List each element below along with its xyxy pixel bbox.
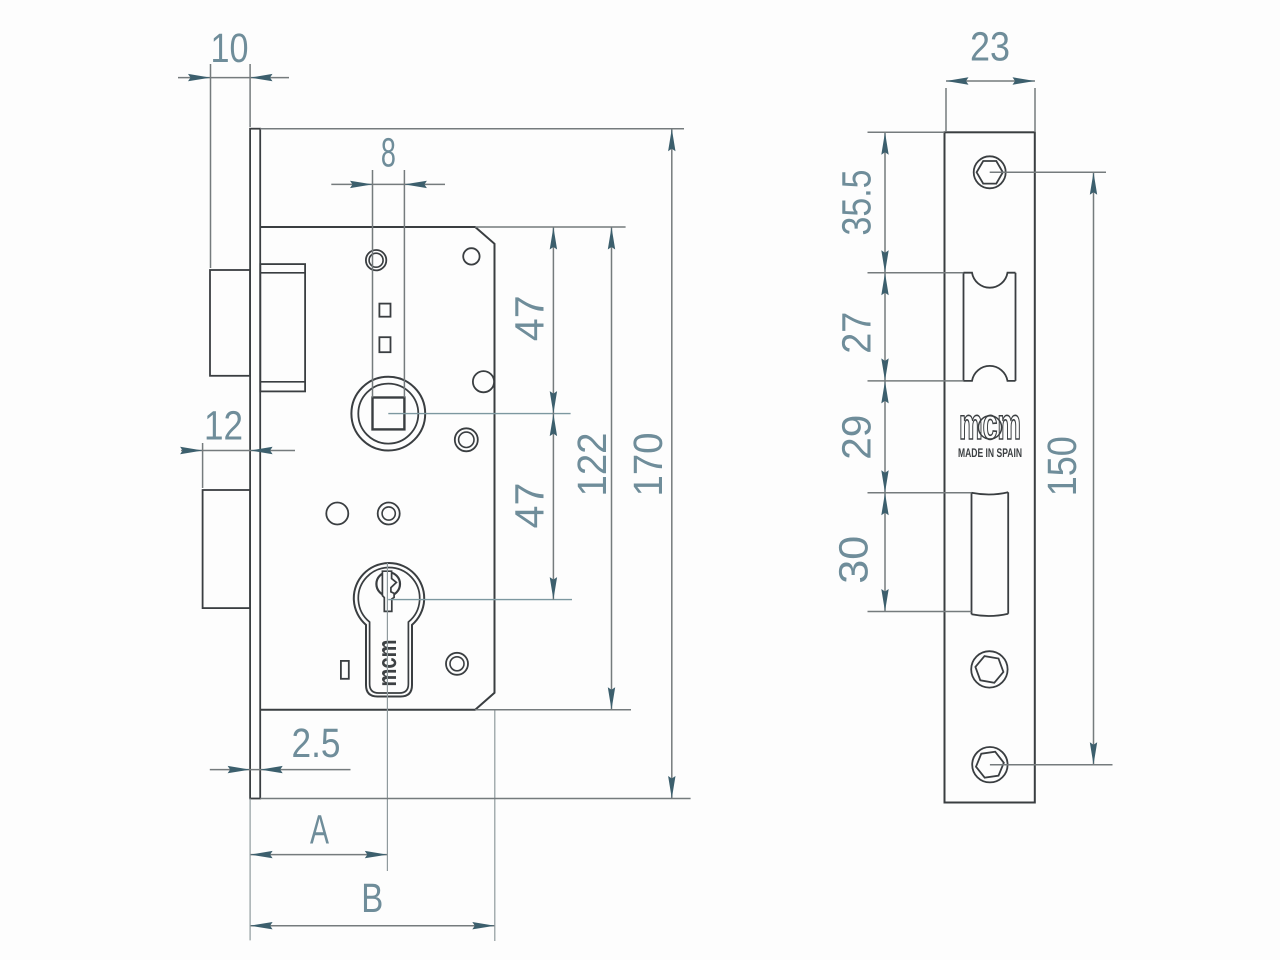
euro cylinder inner contour [358, 568, 419, 693]
dim 47 top dimension line [552, 227, 554, 414]
dim 27 dimension line [884, 273, 886, 381]
follower inner circle [358, 384, 418, 444]
shared left extension line below faceplate (for 2.5 / A / B) [249, 799, 251, 941]
dim 122 dimension line [611, 227, 613, 710]
svg-text:A: A [310, 807, 329, 853]
lock case body outline with chamfered right corners [260, 227, 494, 710]
dim B arrows [250, 922, 495, 929]
dim 150 dimension line [1093, 172, 1095, 764]
svg-text:150: 150 [1039, 436, 1085, 496]
dim 35.5 arrows [881, 132, 888, 272]
dim 27 arrows [881, 273, 888, 381]
screw hole mid (double circle) [378, 503, 400, 525]
svg-text:170: 170 [625, 433, 671, 497]
deadbolt head (protruding left of faceplate) [203, 490, 251, 608]
screw hole bottom (double circle) [446, 653, 468, 675]
follower outer circle [351, 377, 425, 451]
hex screw top: circle [974, 156, 1006, 188]
dim 23 extension lines [945, 88, 947, 131]
dim 30 dimension line [884, 493, 886, 612]
dim 8 extension lines down to follower square [372, 170, 374, 398]
dim 35.5 dimension line [884, 132, 886, 272]
dim 10 dimension line [178, 77, 289, 79]
dim 8 dimension line [331, 183, 445, 185]
euro cylinder outer contour [354, 563, 424, 696]
dim A dimension line [250, 854, 387, 856]
case bottom extension line (to 122 dim) [475, 709, 631, 711]
latch tail collar line bottom [260, 381, 305, 383]
dim 10 arrows [188, 74, 273, 81]
deadbolt cutout top extension line [868, 492, 972, 494]
latch cutout bottom extension line [868, 380, 964, 382]
dim 170 arrows [668, 129, 675, 799]
faceplate front outline [945, 132, 1035, 802]
faceplate bottom extension line (to 170 dim) [260, 798, 690, 800]
hex screw top: hexagon [977, 161, 1003, 184]
svg-text:35.5: 35.5 [834, 170, 880, 236]
dim A arrows [250, 851, 387, 858]
latch cutout with concave arcs [964, 273, 1016, 381]
svg-text:mcm: mcm [959, 400, 1021, 449]
svg-text:122: 122 [569, 433, 615, 497]
spring window upper (small rect) [379, 304, 390, 317]
dim 47 top arrows [550, 227, 557, 414]
svg-text:47: 47 [507, 483, 553, 529]
circle around the c of logo [978, 416, 1001, 439]
cylinder plug circle [376, 572, 400, 596]
dim 29 arrows [881, 381, 888, 493]
svg-text:8: 8 [381, 130, 396, 176]
screw hole right mid (double circle) [455, 428, 478, 451]
latch bolt tail (inside case) [260, 264, 305, 391]
svg-text:23: 23 [970, 24, 1010, 70]
dim 8 arrows [350, 181, 427, 188]
dim 47 bottom arrows [550, 414, 557, 600]
cylinder center line extension (to 47 dims) [388, 599, 572, 601]
dim 2.5 dimension line [210, 769, 351, 771]
svg-text:29: 29 [834, 415, 880, 460]
screw hole top (double circle) [366, 250, 386, 270]
hole top right (single circle) [463, 248, 479, 264]
svg-text:2.5: 2.5 [292, 720, 341, 766]
dim 2.5 arrows [228, 766, 283, 773]
svg-text:B: B [361, 875, 383, 921]
deadbolt cutout with slightly curved edges [972, 492, 1009, 616]
hex screw middle: hexagon (slightly rotated) [975, 656, 1003, 683]
dim 30 arrows [881, 493, 888, 612]
dim 23 arrows [946, 77, 1035, 84]
dim 10 extension line right [249, 64, 251, 127]
extension drop line from case right edge (for B) [494, 710, 496, 941]
spring window lower (small rect) [379, 337, 390, 352]
svg-text:47: 47 [507, 295, 553, 341]
follower center line extension (to 47 dims) [388, 413, 570, 415]
dim 122 arrows [608, 227, 615, 710]
hole right of follower (single circle) [473, 371, 494, 392]
hex screw bottom: circle [972, 747, 1007, 782]
dim 10 extension line left [210, 64, 212, 268]
svg-text:30: 30 [831, 536, 877, 584]
dim 47 bottom dimension line [552, 414, 554, 600]
latch cutout top extension line [868, 272, 964, 274]
latch bolt head (protruding left of faceplate) [210, 270, 250, 376]
dim B dimension line [250, 925, 495, 927]
hex screw bottom: hexagon (slightly rotated) [976, 752, 1004, 778]
dim 23 dimension line [946, 80, 1035, 82]
extension drop line from cylinder center (for A) [386, 697, 388, 871]
svg-text:10: 10 [211, 25, 249, 71]
dim 150 arrows [1090, 172, 1097, 764]
dim 12 arrows [180, 447, 273, 454]
latch tail collar line top [260, 272, 305, 274]
dim 12 dimension line [181, 450, 295, 452]
follower square spindle hole 8mm [373, 398, 405, 430]
dim 170 dimension line [671, 129, 673, 799]
dim 12 extension line left [202, 443, 204, 488]
center line through cylinder (vertical) [386, 563, 388, 697]
svg-text:12: 12 [204, 403, 243, 449]
bottom screw center extension line [990, 764, 1113, 766]
dim 29 dimension line [884, 381, 886, 493]
plate top extension line to 35.5 [868, 131, 945, 133]
svg-text:27: 27 [834, 312, 880, 354]
faceplate top extension line (to 170 dim) [260, 128, 684, 130]
faceplate (side view vertical strip) [250, 129, 260, 799]
svg-text:MADE IN SPAIN: MADE IN SPAIN [958, 446, 1022, 460]
deadbolt cutout bottom extension line [868, 611, 972, 613]
key channel cutout [382, 571, 396, 611]
top screw center extension line [990, 171, 1106, 173]
hex screw middle: circle [971, 651, 1007, 687]
case top extension line (to 122/47 dims) [475, 226, 625, 228]
small rect window left of cylinder [341, 661, 349, 679]
hole mid left (single circle) [326, 503, 348, 525]
